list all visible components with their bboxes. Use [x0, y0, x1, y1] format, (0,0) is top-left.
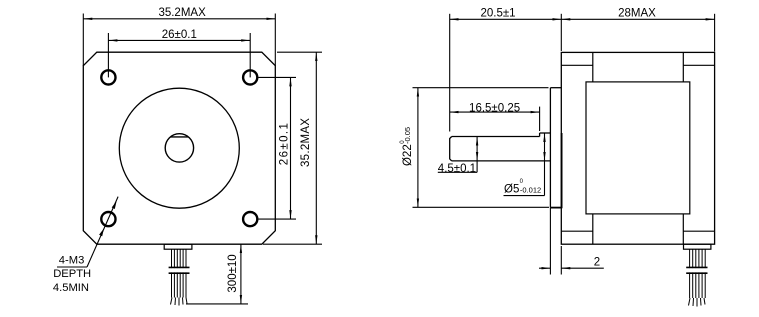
svg-text:28MAX: 28MAX — [618, 8, 656, 20]
svg-text:35.2MAX: 35.2MAX — [300, 118, 312, 167]
svg-text:16.5±0.25: 16.5±0.25 — [469, 102, 520, 114]
svg-text:0: 0 — [520, 179, 524, 185]
svg-text:300±10: 300±10 — [227, 254, 239, 292]
svg-text:2: 2 — [594, 256, 600, 268]
svg-text:-0.05: -0.05 — [403, 127, 412, 144]
svg-text:Ø5: Ø5 — [504, 183, 519, 195]
svg-text:35.2MAX: 35.2MAX — [158, 7, 206, 19]
svg-text:4-M3: 4-M3 — [59, 255, 85, 267]
svg-text:4.5MIN: 4.5MIN — [53, 282, 89, 294]
svg-text:DEPTH: DEPTH — [53, 268, 91, 280]
svg-text:Ø22: Ø22 — [402, 144, 414, 166]
svg-text:26±0.1: 26±0.1 — [279, 122, 291, 166]
svg-text:26±0.1: 26±0.1 — [162, 29, 197, 41]
svg-text:20.5±1: 20.5±1 — [480, 8, 515, 20]
svg-text:4.5±0.1: 4.5±0.1 — [438, 163, 476, 175]
svg-text:-0.012: -0.012 — [520, 185, 541, 194]
